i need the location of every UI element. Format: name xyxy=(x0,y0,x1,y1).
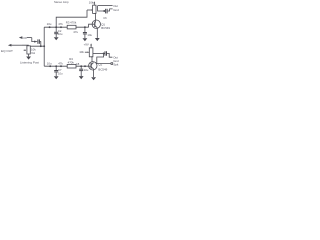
svg-text:Spk: Spk xyxy=(113,62,119,66)
capacitor C1 xyxy=(38,39,40,43)
wire out2 right xyxy=(107,53,113,57)
svg-text:BC549: BC549 xyxy=(101,26,110,30)
ground Q2 emitter xyxy=(91,77,96,80)
wire C1 to junction B xyxy=(39,42,40,47)
svg-text:47u: 47u xyxy=(73,30,78,34)
node junction dot A xyxy=(34,41,36,43)
svg-text:Gnd: Gnd xyxy=(113,8,119,12)
ground Q1 emitter xyxy=(95,38,100,41)
node tee dot ch1 xyxy=(55,26,57,28)
wire Q2 collector xyxy=(90,57,93,63)
capacitor C8 to ground xyxy=(79,65,83,76)
wire input bus xyxy=(43,27,45,66)
ground VR1 xyxy=(26,57,31,60)
svg-text:C7: C7 xyxy=(58,68,62,72)
capacitor C4 to ground xyxy=(83,26,87,38)
node dot C2b xyxy=(60,65,62,67)
wire rail channel 2 xyxy=(44,65,91,67)
svg-text:10k: 10k xyxy=(89,0,94,4)
capacitor C7 to ground xyxy=(54,66,58,76)
terminal jack sleeve xyxy=(111,63,113,65)
svg-text:47k: 47k xyxy=(58,61,63,65)
wire out1 top xyxy=(98,5,113,7)
capacitor C2 to ground xyxy=(54,27,58,37)
node dot C2a xyxy=(49,65,51,67)
ground C4 xyxy=(83,38,88,41)
transistor Q2 xyxy=(89,62,97,70)
node L-input arrow xyxy=(19,36,32,39)
svg-text:Stereo Amp: Stereo Amp xyxy=(54,0,69,4)
wire pot bottom xyxy=(28,54,30,56)
transistor Q1 xyxy=(92,20,100,28)
wire rail1 to Q1 base xyxy=(89,24,95,27)
wire Q2 emitter xyxy=(93,69,95,77)
node EQ-OUT arrow xyxy=(8,44,22,47)
ground C7 xyxy=(54,76,59,79)
svg-text:R3 470k: R3 470k xyxy=(66,21,77,25)
wire L input down xyxy=(32,38,37,42)
wire out1 corner xyxy=(98,6,105,11)
node tee dot ch2 xyxy=(55,65,57,67)
wire rail channel 1 xyxy=(44,26,88,28)
wire out2 sleeve Z-path xyxy=(97,53,111,63)
potentiometer VR2 10k xyxy=(87,5,96,13)
svg-text:Vol: Vol xyxy=(31,51,35,55)
svg-text:10u: 10u xyxy=(47,61,52,65)
wire pot top to bus xyxy=(28,45,44,47)
svg-text:CD: CD xyxy=(23,36,27,40)
node bus tee dot xyxy=(43,45,45,47)
wire out1 right xyxy=(107,9,113,11)
svg-text:EQ OUT: EQ OUT xyxy=(1,49,13,53)
svg-text:10u: 10u xyxy=(58,32,63,36)
node dot C1a xyxy=(49,26,51,28)
potentiometer VR3 10k xyxy=(85,48,93,57)
svg-text:10u: 10u xyxy=(87,33,92,37)
node junction dot B xyxy=(40,45,42,47)
wire Q1 collector xyxy=(94,13,95,21)
supply +9V arrow mid xyxy=(90,43,92,47)
ground C2 xyxy=(54,37,59,40)
svg-text:10u: 10u xyxy=(47,22,52,26)
svg-text:10u: 10u xyxy=(58,72,63,76)
svg-text:10u: 10u xyxy=(84,68,89,72)
node dot out1 xyxy=(103,10,105,12)
svg-text:+9V: +9V xyxy=(84,42,89,46)
supply +9V arrow top xyxy=(93,1,95,5)
potentiometer VR1 volume xyxy=(24,46,31,54)
wire Q1 emitter xyxy=(96,28,98,38)
wire feedback rail ch1 xyxy=(56,10,87,27)
node dot rail2 xyxy=(84,65,86,67)
wire out2 xyxy=(93,52,105,54)
capacitor C9 output xyxy=(105,51,107,56)
svg-text:C6: C6 xyxy=(103,16,107,20)
node dot out2 xyxy=(103,52,105,54)
svg-text:BC549: BC549 xyxy=(98,67,107,71)
node dot C1b xyxy=(60,26,62,28)
svg-text:47k: 47k xyxy=(58,22,63,26)
wire input R to pot xyxy=(22,45,28,46)
capacitor C6 output xyxy=(106,9,108,14)
svg-text:Listening Post: Listening Post xyxy=(20,60,39,64)
resistor R2 470k xyxy=(67,25,76,29)
svg-text:10k: 10k xyxy=(79,50,84,54)
svg-text:470k: 470k xyxy=(68,61,75,65)
ground C8 xyxy=(79,76,84,79)
svg-text:C8: C8 xyxy=(76,62,80,66)
resistor R4 470k xyxy=(67,64,76,68)
